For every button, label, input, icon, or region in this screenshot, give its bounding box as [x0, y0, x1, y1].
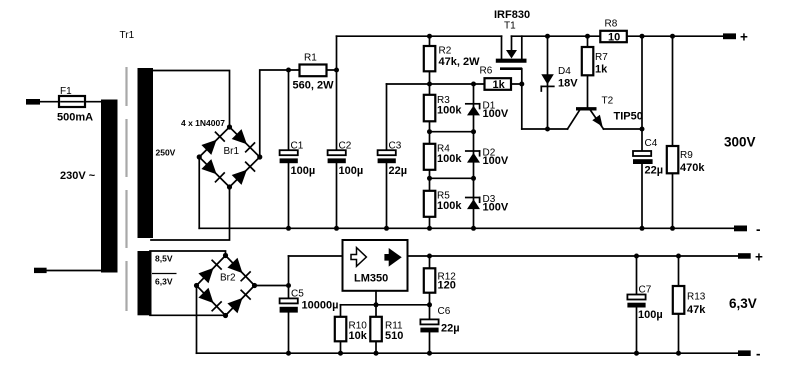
wire R4-R5 junction [430, 177, 474, 179]
wire Br1 plus riser [260, 70, 337, 157]
capacitor C3 [378, 84, 396, 228]
svg-text:10000µ: 10000µ [302, 300, 339, 312]
svg-text:100V: 100V [483, 108, 509, 120]
svg-text:Br2: Br2 [220, 273, 236, 284]
node Br1 AC top [227, 124, 232, 129]
svg-text:47k: 47k [687, 304, 706, 316]
node D3 bottom rail [471, 226, 476, 231]
resistor R8 [600, 31, 627, 42]
svg-text:-: - [756, 222, 761, 237]
resistor R1 [300, 65, 327, 77]
resistor R9 [667, 36, 679, 228]
terminal 6,3V minus [738, 350, 751, 356]
wire [85, 101, 102, 103]
svg-text:+: + [740, 30, 748, 45]
wire diamond SW [199, 157, 229, 187]
svg-text:100k: 100k [437, 153, 462, 165]
svg-text:R7: R7 [595, 52, 608, 63]
terminal mains top [26, 99, 40, 105]
node Br2 AC bottom [223, 313, 228, 318]
terminal mains bottom [34, 268, 47, 273]
svg-text:500mA: 500mA [57, 112, 93, 124]
svg-text:100V: 100V [483, 155, 509, 167]
transformer Tr1 secondary 8,5V/6,3V winding [138, 251, 152, 315]
wire diamond NE [230, 127, 260, 157]
svg-text:47k, 2W: 47k, 2W [439, 56, 481, 68]
node C4 top [640, 34, 645, 39]
node R10 bottom rail [338, 351, 343, 356]
svg-text:4 x 1N4007: 4 x 1N4007 [181, 118, 225, 128]
svg-text:C3: C3 [389, 141, 402, 152]
transistor T2 TIP50 [568, 109, 604, 129]
svg-text:C1: C1 [291, 141, 304, 152]
svg-text:10: 10 [608, 31, 620, 43]
resistor R13 [673, 256, 685, 353]
terminal 6,3V plus [738, 253, 751, 259]
svg-text:R6: R6 [480, 66, 493, 77]
zener diode D2 [466, 132, 480, 179]
wire bottom rail 300V minus [199, 227, 734, 229]
svg-text:-: - [756, 346, 761, 361]
wire [151, 187, 230, 240]
svg-text:300V: 300V [724, 135, 756, 150]
node C6 bottom rail [427, 351, 432, 356]
node C3 bottom rail [384, 226, 389, 231]
svg-text:6,3V: 6,3V [729, 296, 757, 311]
wire diamond SW [197, 286, 226, 316]
transformer Tr1 primary winding [101, 100, 118, 273]
svg-text:100µ: 100µ [291, 165, 316, 177]
wire top rail right [512, 35, 724, 37]
node R13 bottom [676, 351, 681, 356]
resistor R11 [370, 305, 382, 353]
terminal 300V plus [723, 33, 736, 39]
svg-text:100µ: 100µ [638, 309, 663, 321]
node adj R11 [374, 302, 379, 307]
wire [151, 71, 230, 128]
node C4 bottom [640, 226, 645, 231]
node R5 bottom rail [427, 226, 432, 231]
node C5 bottom rail [286, 351, 291, 356]
svg-text:LM350: LM350 [354, 273, 388, 285]
diode Br2 lower-right [227, 290, 250, 313]
svg-text:C6: C6 [438, 306, 451, 317]
node Br2 AC top [223, 253, 228, 258]
wire T2 emitter to C4 node [604, 128, 643, 130]
svg-text:470k: 470k [680, 162, 705, 174]
transformer Tr1 secondary 250V winding [138, 68, 154, 238]
wire [46, 270, 101, 272]
svg-text:Br1: Br1 [224, 146, 240, 157]
svg-text:T1: T1 [504, 21, 516, 32]
node D4 top [545, 34, 550, 39]
node C2 bottom rail [334, 226, 339, 231]
wire adj node line [341, 304, 430, 306]
diode Br1 lower-left [201, 159, 224, 182]
wire diamond NE [226, 256, 255, 286]
node C1 bottom rail [286, 226, 291, 231]
node adj R12 C6 [427, 302, 432, 307]
svg-text:22µ: 22µ [441, 323, 460, 335]
node R9 top [670, 34, 675, 39]
capacitor C7 [627, 256, 645, 353]
node Br2 minus [194, 283, 199, 288]
regulator U1 LM350 [343, 240, 408, 291]
diode Br1 upper-left [201, 132, 224, 155]
node Br1 plus [257, 154, 262, 159]
svg-text:100k: 100k [437, 105, 462, 117]
svg-text:230V ~: 230V ~ [60, 170, 96, 182]
wire bottom rail 6,3V minus [197, 352, 739, 354]
node D4 bottom [545, 127, 550, 132]
capacitor C4 [633, 36, 653, 228]
svg-text:6,3V: 6,3V [155, 277, 173, 287]
node R2 bottom [427, 82, 432, 87]
node R4 bottom [427, 176, 432, 181]
transformer Tr1 core [125, 67, 127, 311]
node R13 top [676, 254, 681, 259]
wire diamond NW [197, 256, 226, 286]
bridge rectifier Br2 [194, 253, 257, 318]
MOSFET T1 IRF830 [496, 36, 527, 129]
node R11 bottom rail [374, 351, 379, 356]
svg-text:R13: R13 [687, 292, 706, 303]
wire Br1 minus drop [198, 157, 200, 228]
svg-text:100V: 100V [483, 202, 509, 214]
node R7 top [585, 34, 590, 39]
node top rail R2 [427, 34, 432, 39]
resistor R6 [485, 78, 512, 90]
node Br2 plus [252, 283, 257, 288]
node C5 tap [286, 283, 291, 288]
svg-text:TIP50: TIP50 [614, 111, 643, 123]
node D2 bottom [471, 176, 476, 181]
svg-text:C7: C7 [639, 285, 652, 296]
svg-text:22µ: 22µ [389, 165, 408, 177]
svg-text:8,5V: 8,5V [155, 254, 173, 264]
svg-text:22µ: 22µ [645, 165, 664, 177]
diode Br1 upper-right [232, 129, 255, 152]
svg-text:560, 2W: 560, 2W [293, 80, 335, 92]
svg-text:1k: 1k [595, 64, 608, 76]
capacitor C2 [328, 70, 346, 228]
node Br1 AC bottom [227, 184, 232, 189]
svg-text:R8: R8 [605, 19, 618, 30]
resistor R3 [424, 84, 436, 132]
wire LM350 adj pin [375, 291, 377, 305]
terminal 300V minus [734, 226, 747, 232]
wire diamond NW [199, 127, 229, 157]
svg-text:100k: 100k [437, 200, 462, 212]
svg-text:C2: C2 [339, 141, 352, 152]
diode Br1 lower-right [232, 162, 255, 185]
svg-text:250V: 250V [156, 148, 176, 158]
wire divider node to R6 [430, 83, 522, 85]
svg-text:R9: R9 [680, 150, 693, 161]
bridge rectifier Br1 [197, 124, 263, 189]
capacitor C1 [280, 70, 298, 228]
svg-text:18V: 18V [558, 77, 578, 89]
wire diamond SE [230, 157, 260, 187]
resistor R7 [582, 36, 594, 107]
resistor R5 [424, 178, 436, 228]
node R1 left [286, 68, 291, 73]
svg-text:C4: C4 [645, 138, 658, 149]
zener diode D1 [466, 84, 480, 132]
svg-text:+: + [755, 250, 763, 265]
svg-text:D4: D4 [558, 66, 571, 77]
wire LM350 input [289, 255, 343, 257]
wire gate node [522, 128, 568, 130]
diode Br2 upper-left [198, 260, 221, 283]
svg-text:Tr1: Tr1 [120, 30, 135, 41]
node R12 top [427, 254, 432, 259]
node C7 bottom [634, 351, 639, 356]
svg-text:IRF830: IRF830 [494, 9, 530, 21]
svg-text:F1: F1 [60, 86, 72, 97]
resistor R2 [424, 36, 436, 84]
svg-text:510: 510 [385, 330, 403, 342]
svg-text:T2: T2 [602, 96, 614, 107]
wire [150, 251, 226, 256]
wire C2 riser [336, 36, 338, 70]
node emitter junction [640, 127, 645, 132]
wire winding tap mark [152, 273, 177, 275]
wire R3-R4 junction [430, 131, 474, 133]
svg-text:120: 120 [438, 280, 456, 292]
svg-text:R1: R1 [304, 53, 317, 64]
diode Br2 upper-right [227, 258, 250, 281]
wire LM350 output rail 6,3V plus [408, 255, 739, 257]
wire top rail left [337, 35, 502, 37]
node C7 top [634, 254, 639, 259]
capacitor C5 [280, 256, 298, 353]
svg-text:100µ: 100µ [339, 165, 364, 177]
resistor R4 [424, 132, 436, 179]
wire C3 to R2 junction [387, 83, 430, 85]
resistor R10 [335, 305, 347, 353]
zener diode D4 [541, 36, 554, 129]
wire diamond SE [226, 286, 255, 316]
svg-text:10k: 10k [349, 330, 368, 342]
zener diode D3 [466, 178, 480, 228]
svg-text:C5: C5 [291, 289, 304, 300]
node D1 top [471, 82, 476, 87]
diode Br2 lower-left [198, 288, 221, 311]
node R6 right gate [519, 82, 524, 87]
svg-text:1k: 1k [493, 79, 506, 91]
node R3 bottom [427, 129, 432, 134]
wire [150, 314, 226, 316]
wire [40, 101, 60, 103]
node R1 right [334, 68, 339, 73]
fuse F1 [59, 96, 85, 107]
resistor R12 [424, 256, 436, 305]
wire Br2 plus to C5 [255, 285, 289, 287]
node R9 bottom [670, 226, 675, 231]
node Br1 minus [197, 154, 202, 159]
capacitor C6 [420, 305, 438, 353]
node D1 bottom [471, 129, 476, 134]
wire Br2 minus drop [196, 286, 198, 354]
